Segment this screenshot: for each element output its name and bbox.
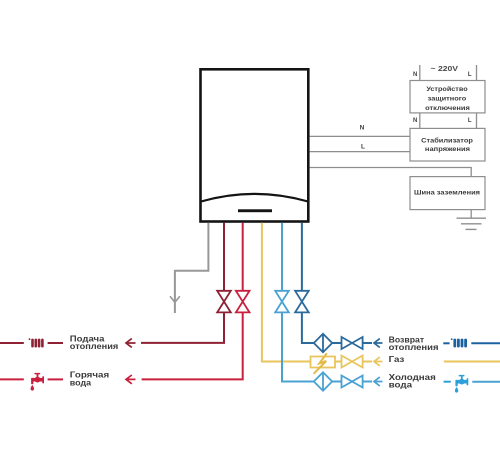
- cold water line right: [472, 381, 500, 383]
- valve cold water horizontal: [342, 376, 363, 388]
- svg-text:Устройство: Устройство: [426, 85, 467, 93]
- boiler: [201, 69, 309, 221]
- svg-text:защитного: защитного: [428, 96, 467, 103]
- ground bus box (Шина заземления): [410, 177, 485, 210]
- gas valve: [342, 356, 363, 368]
- condensate pipe (gray): [175, 223, 209, 313]
- condensate drain arrow: [170, 296, 180, 302]
- svg-text:N: N: [413, 72, 417, 78]
- wire L between boxes: [476, 113, 478, 129]
- gas line right: [444, 361, 500, 363]
- svg-text:N: N: [360, 125, 365, 132]
- svg-text:отопления: отопления: [389, 342, 439, 352]
- wire N between boxes: [419, 113, 421, 129]
- heating return dash: [443, 342, 449, 344]
- valve heating supply: [217, 291, 231, 313]
- svg-text:N: N: [413, 118, 417, 124]
- heating return line right: [471, 342, 500, 344]
- svg-text:Газ: Газ: [389, 354, 405, 364]
- valve hot water: [236, 291, 250, 313]
- valve heating return vertical: [295, 291, 309, 313]
- RCD box (Устройство защитного отключения): [410, 81, 485, 113]
- heating return pipe (dark blue): [302, 223, 372, 343]
- hot water pipe (crimson): [142, 223, 243, 380]
- wire N top supply: [419, 65, 421, 81]
- heating return radiator icon: [451, 338, 467, 347]
- wire L top supply: [476, 65, 478, 81]
- svg-text:L: L: [468, 118, 472, 124]
- svg-text:~ 220V: ~ 220V: [431, 64, 459, 73]
- wire L boiler to stabilizer: [310, 151, 410, 153]
- stabilizer box (Стабилизатор напряжения): [410, 128, 485, 161]
- cold water pipe (light blue): [282, 223, 372, 382]
- svg-text:вода: вода: [70, 377, 92, 387]
- filter cold water: [314, 372, 332, 390]
- svg-text:вода: вода: [389, 380, 413, 390]
- cold water dash: [444, 381, 451, 383]
- filter heating return: [314, 334, 332, 352]
- cold water tap icon: [455, 375, 468, 393]
- ground symbol: [457, 210, 487, 230]
- heating supply arrow: [126, 339, 136, 348]
- gas filter lightning bolt: [314, 353, 327, 374]
- svg-text:отопления: отопления: [70, 341, 119, 351]
- svg-text:L: L: [468, 72, 472, 78]
- svg-text:отключения: отключения: [425, 105, 470, 112]
- hot water arrow: [126, 375, 136, 384]
- svg-text:L: L: [361, 144, 365, 151]
- heating supply line mid: [48, 342, 63, 344]
- svg-text:напряжения: напряжения: [425, 146, 470, 153]
- gas filter box: [311, 357, 336, 368]
- cold water arrow: [374, 377, 383, 386]
- heating supply radiator icon: [29, 338, 44, 347]
- heating supply pipe (dark red): [141, 223, 224, 343]
- hot water tap icon: [31, 373, 44, 391]
- valve cold water vertical: [275, 291, 289, 313]
- hot water line left: [0, 378, 24, 380]
- heating supply line left: [0, 342, 24, 344]
- valve heating return horizontal: [342, 337, 363, 349]
- wire N boiler to stabilizer: [310, 135, 410, 137]
- svg-text:Стабилизатор: Стабилизатор: [421, 136, 473, 144]
- gas pipe (yellow): [262, 223, 372, 362]
- heating return arrow: [374, 339, 383, 348]
- gas arrow: [374, 357, 383, 366]
- svg-text:Шина заземления: Шина заземления: [414, 189, 480, 196]
- wire ground boiler to bus: [310, 168, 472, 177]
- hot water line mid: [48, 378, 63, 380]
